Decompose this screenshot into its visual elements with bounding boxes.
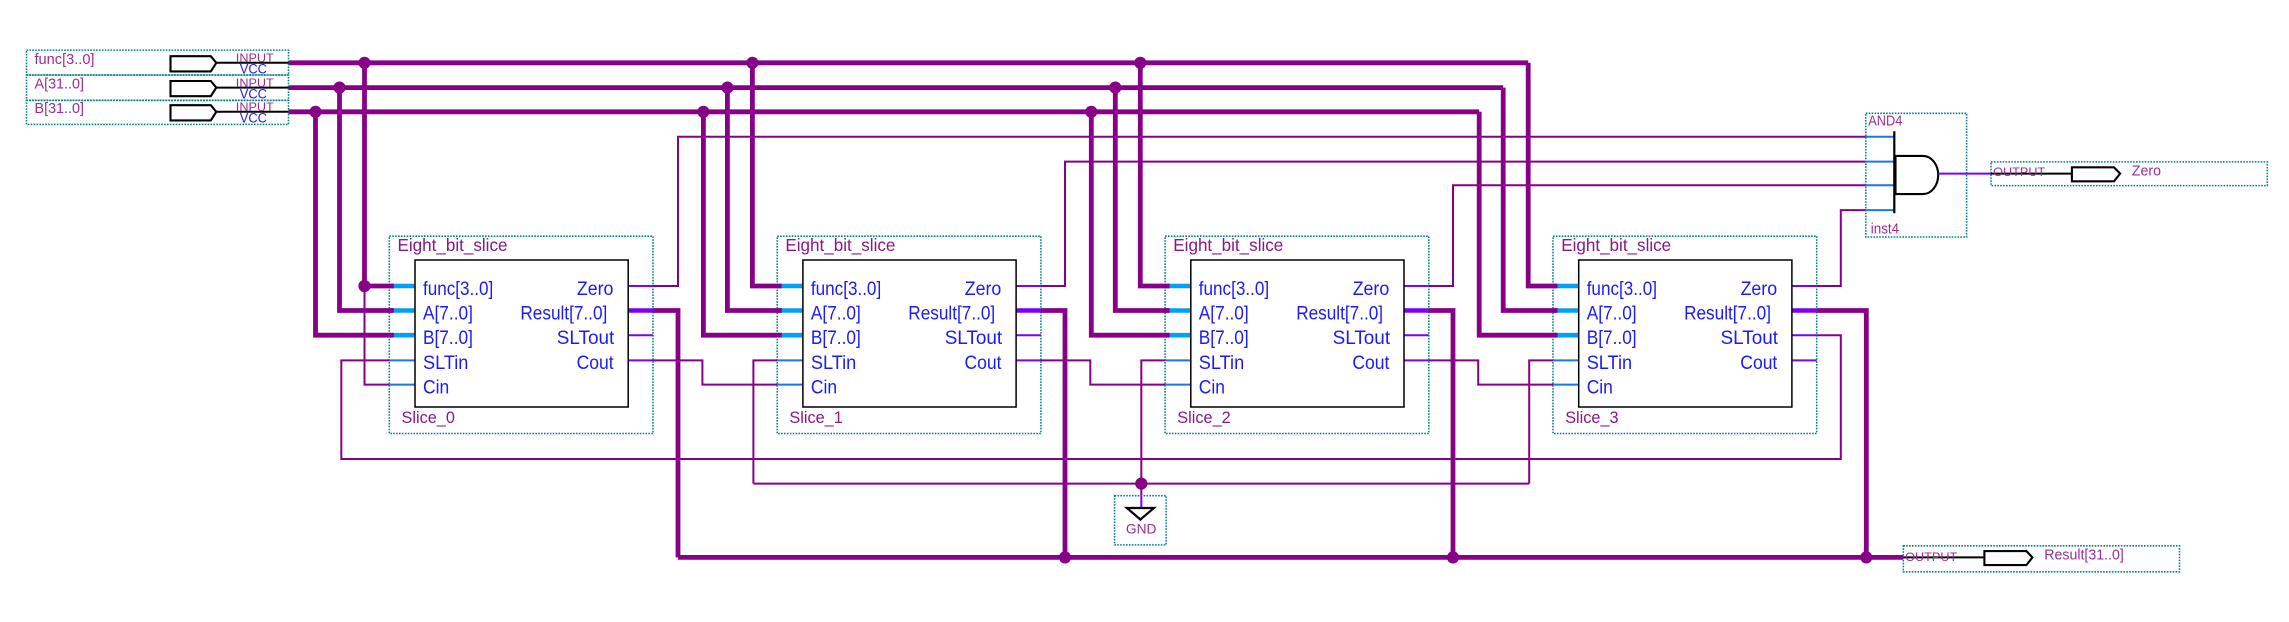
svg-text:Zero: Zero xyxy=(1353,279,1390,300)
junction GND net xyxy=(1135,478,1147,490)
svg-text:Slice_1: Slice_1 xyxy=(789,408,842,427)
svg-text:SLTout: SLTout xyxy=(1333,328,1391,349)
svg-text:SLTout: SLTout xyxy=(945,328,1003,349)
wire SLTout Slice_3 to SLTin Slice_0 xyxy=(341,335,1841,459)
block Slice_1 Eight_bit_slice xyxy=(777,235,1041,433)
junction Result bus x1866 xyxy=(1860,551,1872,563)
block Slice_2 Eight_bit_slice xyxy=(1165,235,1429,433)
svg-text:Slice_3: Slice_3 xyxy=(1565,408,1618,427)
svg-text:Result[7..0]: Result[7..0] xyxy=(1684,303,1771,324)
svg-text:AND4: AND4 xyxy=(1868,113,1902,129)
wire func net down to Cin Slice_0 xyxy=(365,286,390,385)
svg-text:Zero: Zero xyxy=(577,279,614,300)
junction Result bus x1453 xyxy=(1447,551,1459,563)
svg-text:func[3..0]: func[3..0] xyxy=(35,52,95,68)
svg-text:B[31..0]: B[31..0] xyxy=(35,101,85,117)
bus wire Result Slice_0 to Result bus xyxy=(653,311,678,558)
svg-text:Zero: Zero xyxy=(1741,279,1778,300)
bus wire A drop to Slice_0 xyxy=(340,88,394,311)
wire GND net horizontal xyxy=(753,483,1529,485)
wire Zero Slice_0 to AND4 input 1 xyxy=(653,137,1866,286)
svg-text:VCC: VCC xyxy=(240,111,267,126)
junction func bus x752 xyxy=(746,57,758,69)
bus wire func drop to Slice_1 xyxy=(752,63,781,286)
svg-text:Eight_bit_slice: Eight_bit_slice xyxy=(1561,235,1671,256)
svg-text:inst4: inst4 xyxy=(1871,221,1899,237)
block Slice_3 Eight_bit_slice xyxy=(1553,235,1817,433)
junction func bus x1140 xyxy=(1134,57,1146,69)
junction A bus x727 xyxy=(721,82,733,94)
bus wire B[31..0] horizontal xyxy=(289,109,1480,114)
svg-text:Slice_2: Slice_2 xyxy=(1177,408,1230,427)
svg-text:Cout: Cout xyxy=(965,353,1003,374)
svg-text:SLTin: SLTin xyxy=(811,353,856,374)
svg-text:A[7..0]: A[7..0] xyxy=(1587,303,1637,324)
svg-text:Zero: Zero xyxy=(965,279,1002,300)
ground symbol GND xyxy=(1115,496,1167,545)
svg-text:func[3..0]: func[3..0] xyxy=(1199,279,1269,300)
svg-text:B[7..0]: B[7..0] xyxy=(1587,328,1637,349)
svg-text:SLTout: SLTout xyxy=(557,328,615,349)
svg-text:Cin: Cin xyxy=(423,377,449,398)
bus wire func drop to Slice_2 xyxy=(1140,63,1169,286)
bus wire B drop to Slice_2 xyxy=(1091,112,1169,335)
bus wire B drop to Slice_3 xyxy=(1479,112,1557,335)
svg-text:Cout: Cout xyxy=(1352,353,1390,374)
svg-text:SLTin: SLTin xyxy=(1587,353,1632,374)
input pin A[31..0] (INPUT/VCC symbol) xyxy=(27,75,289,102)
junction A bus x339 xyxy=(333,82,345,94)
wire Zero Slice_3 to AND4 input 4 xyxy=(1817,210,1866,286)
svg-text:B[7..0]: B[7..0] xyxy=(811,328,861,349)
svg-text:func[3..0]: func[3..0] xyxy=(811,279,881,300)
wire Zero Slice_1 to AND4 input 2 xyxy=(1041,162,1866,286)
bus wire A drop to Slice_1 xyxy=(727,88,781,311)
bus wire A drop to Slice_3 xyxy=(1503,88,1557,311)
junction func elbow Slice_0 xyxy=(358,280,370,292)
wire Cout Slice_2 to Cin Slice_3 xyxy=(1429,360,1553,384)
svg-text:A[7..0]: A[7..0] xyxy=(423,303,473,324)
svg-text:A[31..0]: A[31..0] xyxy=(35,77,85,93)
bus wire func[3..0] horizontal xyxy=(289,60,1529,65)
svg-text:Result[7..0]: Result[7..0] xyxy=(908,303,995,324)
bus wire B drop to Slice_1 xyxy=(703,112,781,335)
wire Cout Slice_0 to Cin Slice_1 xyxy=(653,360,777,384)
svg-text:Eight_bit_slice: Eight_bit_slice xyxy=(785,235,895,256)
svg-text:Result[31..0]: Result[31..0] xyxy=(2044,547,2124,564)
svg-text:A[7..0]: A[7..0] xyxy=(1199,303,1249,324)
svg-text:B[7..0]: B[7..0] xyxy=(423,328,473,349)
junction A bus x1115 xyxy=(1109,82,1121,94)
wire GND net stub down xyxy=(1140,484,1142,496)
svg-text:Slice_0: Slice_0 xyxy=(402,408,455,427)
wire Cout Slice_1 to Cin Slice_2 xyxy=(1041,360,1165,384)
junction func bus x364 xyxy=(358,57,370,69)
bus wire func drop to Slice_3 xyxy=(1528,63,1557,286)
svg-text:Cin: Cin xyxy=(1199,377,1225,398)
svg-text:Cout: Cout xyxy=(577,353,615,374)
bus wire Result Slice_1 to Result bus xyxy=(1041,311,1065,558)
bus wire B drop to Slice_0 xyxy=(316,112,394,335)
svg-text:SLTin: SLTin xyxy=(1199,353,1244,374)
bus wire Result Slice_3 to Result bus xyxy=(1817,311,1867,558)
svg-text:A[7..0]: A[7..0] xyxy=(811,303,861,324)
svg-text:Zero: Zero xyxy=(2132,163,2161,180)
svg-text:Cin: Cin xyxy=(811,377,837,398)
svg-text:OUTPUT: OUTPUT xyxy=(1905,550,1957,564)
svg-text:Eight_bit_slice: Eight_bit_slice xyxy=(398,235,508,256)
wire Zero Slice_2 to AND4 input 3 xyxy=(1429,185,1866,286)
svg-text:Result[7..0]: Result[7..0] xyxy=(1296,303,1383,324)
wire SLTin Slice_2 to GND net xyxy=(1141,360,1165,483)
bus wire func drop to Slice_0 xyxy=(365,63,394,286)
bus wire Result[31..0] bottom horizontal xyxy=(678,555,1903,560)
junction Result bus x1065 xyxy=(1059,551,1071,563)
svg-text:SLTout: SLTout xyxy=(1721,328,1779,349)
svg-text:func[3..0]: func[3..0] xyxy=(423,279,493,300)
svg-text:Result[7..0]: Result[7..0] xyxy=(520,303,607,324)
svg-text:GND: GND xyxy=(1126,521,1157,537)
svg-text:Cout: Cout xyxy=(1740,353,1778,374)
block Slice_0 Eight_bit_slice xyxy=(389,235,653,433)
junction B bus x315 xyxy=(309,106,321,118)
svg-text:Cin: Cin xyxy=(1587,377,1613,398)
svg-text:B[7..0]: B[7..0] xyxy=(1199,328,1249,349)
output pin Result[31..0] xyxy=(1903,546,2179,572)
input pin B[31..0] (INPUT/VCC symbol) xyxy=(27,100,289,126)
bus wire A[31..0] horizontal xyxy=(289,85,1504,90)
junction B bus x703 xyxy=(697,106,709,118)
wire SLTin Slice_3 to GND net xyxy=(1529,360,1553,483)
junction B bus x1091 xyxy=(1085,106,1097,118)
and-gate AND4 inst4 xyxy=(1866,113,1991,237)
input pin func[3..0] (INPUT/VCC symbol) xyxy=(27,50,289,77)
svg-text:OUTPUT: OUTPUT xyxy=(1993,165,2045,179)
svg-text:func[3..0]: func[3..0] xyxy=(1587,279,1657,300)
wire SLTin Slice_1 to GND net xyxy=(753,360,777,483)
bus wire A drop to Slice_2 xyxy=(1115,88,1169,311)
bus wire Result Slice_2 to Result bus xyxy=(1429,311,1453,558)
output pin Zero xyxy=(1991,162,2267,186)
svg-text:SLTin: SLTin xyxy=(423,353,468,374)
svg-text:Eight_bit_slice: Eight_bit_slice xyxy=(1173,235,1283,256)
